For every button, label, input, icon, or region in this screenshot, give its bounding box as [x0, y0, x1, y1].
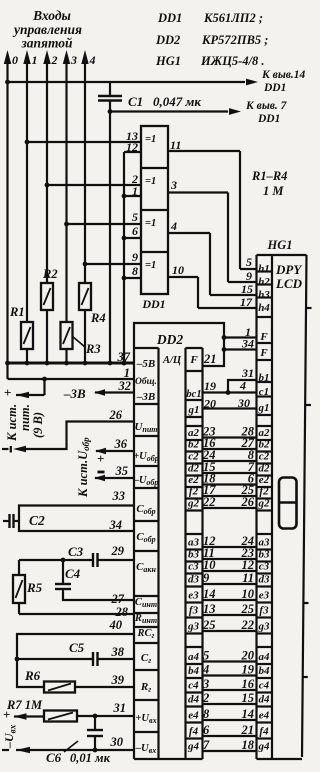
svg-text:0: 0 [12, 53, 18, 67]
svg-text:HG1: HG1 [155, 54, 181, 68]
svg-text:b3: b3 [188, 549, 200, 561]
svg-text:=1: =1 [145, 176, 156, 187]
svg-text:22: 22 [202, 495, 216, 509]
svg-text:10: 10 [242, 587, 255, 601]
svg-text:f3: f3 [259, 605, 269, 617]
svg-text:h1: h1 [258, 263, 270, 275]
svg-text:К ист.: К ист. [5, 404, 19, 442]
svg-text:4: 4 [89, 53, 96, 67]
svg-text:DD1: DD1 [141, 297, 165, 311]
svg-text:пит.: пит. [18, 404, 32, 431]
svg-text:с4: с4 [259, 680, 270, 692]
svg-text:а4: а4 [188, 651, 200, 663]
svg-text:30: 30 [110, 735, 124, 749]
svg-text:=1: =1 [145, 218, 156, 229]
svg-text:22: 22 [241, 618, 255, 632]
svg-text:39: 39 [111, 673, 125, 687]
svg-text:b2: b2 [259, 439, 271, 451]
svg-text:К выв.14: К выв.14 [261, 69, 306, 81]
svg-text:С6: С6 [46, 750, 62, 765]
svg-text:а2: а2 [259, 427, 271, 439]
svg-text:g4: g4 [258, 741, 271, 753]
svg-text:запятой: запятой [20, 36, 73, 51]
svg-text:34: 34 [241, 337, 254, 351]
svg-text:25: 25 [241, 602, 255, 616]
svg-text:DD1: DD1 [263, 82, 286, 94]
svg-text:6: 6 [203, 723, 210, 737]
svg-text:с4: с4 [188, 680, 199, 692]
svg-text:16: 16 [242, 677, 255, 691]
svg-text:е4: е4 [259, 710, 270, 722]
svg-text:f4: f4 [259, 726, 269, 738]
svg-text:С2: С2 [29, 513, 45, 528]
svg-text:а3: а3 [188, 537, 200, 549]
svg-text:9: 9 [132, 250, 138, 264]
svg-text:b1: b1 [259, 372, 270, 384]
svg-text:15: 15 [241, 282, 253, 296]
svg-text:F: F [259, 347, 268, 359]
svg-text:5: 5 [203, 648, 209, 662]
svg-text:R7 1М: R7 1М [6, 698, 43, 712]
svg-text:h3: h3 [258, 289, 270, 301]
svg-text:9: 9 [246, 269, 252, 283]
svg-text:g4: g4 [187, 741, 200, 753]
svg-text:С4: С4 [65, 566, 81, 581]
svg-text:9: 9 [203, 571, 210, 585]
svg-text:d2: d2 [259, 463, 271, 475]
svg-text:f2: f2 [189, 486, 199, 498]
svg-text:g3: g3 [187, 621, 200, 633]
svg-text:+: + [4, 385, 11, 400]
svg-text:20: 20 [203, 397, 216, 411]
svg-text:R2: R2 [42, 267, 58, 281]
svg-text:е2: е2 [259, 474, 270, 486]
svg-text:а2: а2 [188, 427, 200, 439]
svg-text:h2: h2 [258, 276, 270, 288]
svg-text:3: 3 [170, 178, 177, 192]
svg-text:40: 40 [109, 618, 123, 632]
svg-text:21: 21 [241, 723, 255, 737]
svg-text:е3: е3 [188, 590, 199, 602]
svg-text:R1–R4: R1–R4 [251, 169, 287, 183]
svg-text:f4: f4 [189, 726, 199, 738]
svg-text:30: 30 [237, 396, 250, 410]
svg-text:3: 3 [70, 53, 77, 67]
svg-text:DPY: DPY [275, 262, 302, 277]
svg-text:31: 31 [113, 701, 127, 715]
svg-text:DD2: DD2 [156, 332, 183, 347]
svg-text:F: F [259, 331, 268, 343]
svg-text:27: 27 [111, 592, 125, 606]
svg-text:10: 10 [172, 263, 184, 277]
svg-text:f3: f3 [189, 605, 199, 617]
svg-text:DD1: DD1 [157, 11, 182, 25]
svg-text:С3: С3 [68, 544, 84, 559]
svg-text:К выв. 7: К выв. 7 [245, 100, 288, 112]
svg-text:R1: R1 [9, 305, 25, 319]
svg-text:DD2: DD2 [155, 33, 180, 47]
svg-text:26: 26 [241, 495, 255, 509]
svg-text:25: 25 [202, 618, 216, 632]
svg-text:b2: b2 [188, 439, 200, 451]
svg-text:а3: а3 [259, 537, 271, 549]
svg-text:d4: d4 [259, 694, 271, 706]
svg-text:5: 5 [132, 210, 138, 224]
svg-text:6: 6 [132, 224, 138, 238]
svg-text:+: + [3, 707, 10, 722]
svg-text:14: 14 [242, 707, 255, 721]
svg-text:g2: g2 [258, 498, 271, 510]
svg-text:–3В: –3В [136, 391, 155, 403]
svg-text:15: 15 [242, 691, 255, 705]
svg-text:с3: с3 [259, 561, 270, 573]
svg-text:21: 21 [203, 352, 217, 366]
svg-text:26: 26 [109, 408, 123, 422]
svg-text:11: 11 [170, 138, 181, 152]
svg-text:19: 19 [242, 662, 255, 676]
svg-text:g2: g2 [187, 498, 200, 510]
svg-text:34: 34 [109, 518, 123, 532]
svg-text:11: 11 [242, 571, 254, 585]
svg-text:17: 17 [240, 295, 253, 309]
svg-text:А/Ц: А/Ц [162, 355, 182, 366]
svg-text:5: 5 [246, 255, 252, 269]
svg-text:8: 8 [132, 264, 138, 278]
svg-text:33: 33 [112, 489, 126, 503]
svg-text:19: 19 [204, 379, 216, 393]
svg-text:=1: =1 [145, 134, 156, 145]
svg-text:HG1: HG1 [267, 238, 293, 252]
svg-text:а4: а4 [259, 651, 271, 663]
svg-text:37: 37 [117, 350, 131, 364]
svg-text:2: 2 [202, 691, 209, 705]
svg-text:е3: е3 [259, 590, 270, 602]
svg-text:R3: R3 [85, 342, 101, 356]
svg-text:–3В: –3В [63, 386, 86, 401]
svg-text:С1: С1 [128, 94, 143, 109]
svg-text:КР572ПВ5 ;: КР572ПВ5 ; [201, 33, 268, 47]
svg-text:4: 4 [202, 662, 209, 676]
svg-text:d3: d3 [188, 574, 200, 586]
svg-text:–5В: –5В [136, 358, 155, 370]
svg-text:28: 28 [115, 605, 129, 619]
svg-text:R4: R4 [90, 311, 106, 325]
svg-text:с2: с2 [188, 451, 199, 463]
svg-text:12: 12 [242, 558, 255, 572]
svg-text:bс1: bс1 [186, 389, 201, 400]
svg-text:14: 14 [203, 587, 216, 601]
svg-text:2: 2 [51, 53, 58, 67]
svg-text:35: 35 [115, 464, 129, 478]
svg-text:36: 36 [114, 437, 128, 451]
svg-text:с3: с3 [188, 561, 199, 573]
svg-text:DD1: DD1 [257, 113, 280, 125]
svg-text:38: 38 [111, 645, 125, 659]
svg-text:R5: R5 [26, 580, 43, 595]
svg-text:b4: b4 [259, 665, 271, 677]
svg-text:4: 4 [170, 219, 177, 233]
svg-text:е4: е4 [188, 710, 199, 722]
svg-text:8: 8 [203, 707, 210, 721]
svg-text:18: 18 [242, 738, 255, 752]
svg-text:F: F [189, 354, 198, 366]
svg-text:g3: g3 [258, 621, 271, 633]
svg-text:12: 12 [126, 140, 138, 154]
svg-text:f2: f2 [259, 486, 269, 498]
svg-text:+: + [97, 451, 104, 466]
svg-text:1: 1 [32, 53, 38, 67]
svg-text:h4: h4 [258, 302, 270, 314]
svg-text:d2: d2 [188, 463, 200, 475]
svg-text:1: 1 [124, 366, 130, 380]
svg-text:с1: с1 [259, 386, 269, 398]
svg-text:32: 32 [118, 379, 132, 393]
svg-text:b4: b4 [188, 665, 200, 677]
svg-text:ИЖЦ5-4/8 .: ИЖЦ5-4/8 . [200, 54, 265, 68]
svg-text:3: 3 [202, 677, 209, 691]
svg-text:К561ЛП2 ;: К561ЛП2 ; [203, 11, 263, 25]
svg-text:С5: С5 [69, 640, 85, 655]
svg-text:LCD: LCD [275, 276, 303, 291]
svg-text:=1: =1 [145, 260, 156, 271]
svg-text:е2: е2 [188, 474, 199, 486]
svg-text:b3: b3 [259, 549, 271, 561]
svg-text:0,01 мк: 0,01 мк [70, 751, 111, 765]
svg-text:1 М: 1 М [263, 184, 284, 198]
svg-text:20: 20 [241, 648, 255, 662]
svg-text:7: 7 [203, 738, 210, 752]
svg-text:g1: g1 [188, 404, 200, 416]
svg-text:Входы: Входы [32, 8, 71, 23]
svg-text:29: 29 [111, 544, 125, 558]
svg-text:0,047 мк: 0,047 мк [153, 94, 201, 109]
svg-text:Общ.: Общ. [135, 376, 157, 387]
svg-text:4: 4 [239, 379, 246, 393]
svg-text:R6: R6 [24, 668, 41, 683]
svg-text:(9 В): (9 В) [31, 412, 45, 438]
svg-text:10: 10 [203, 558, 216, 572]
svg-text:d3: d3 [259, 574, 271, 586]
svg-text:g1: g1 [258, 402, 270, 414]
svg-text:с2: с2 [259, 451, 270, 463]
svg-text:1: 1 [132, 184, 138, 198]
svg-text:13: 13 [203, 602, 216, 616]
svg-text:d4: d4 [188, 694, 200, 706]
